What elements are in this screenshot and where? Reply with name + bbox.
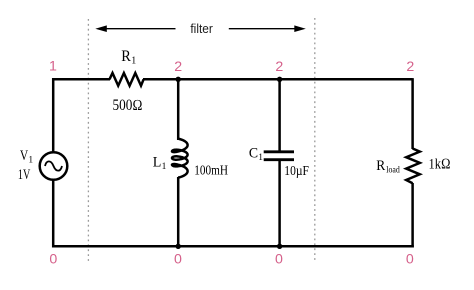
svg-text:R: R	[376, 158, 385, 174]
svg-text:1: 1	[28, 156, 33, 166]
svg-text:V: V	[20, 148, 29, 164]
svg-text:2: 2	[406, 59, 414, 75]
wire: L1 to node 0	[177, 177, 180, 247]
svg-text:500Ω: 500Ω	[113, 97, 143, 114]
svg-text:0: 0	[174, 251, 182, 267]
svg-text:1kΩ: 1kΩ	[429, 156, 451, 172]
wire: node 1 top horizontal (V1 to R1)	[52, 78, 110, 81]
svg-text:load: load	[386, 165, 400, 175]
svg-text:2: 2	[174, 59, 182, 75]
resistor Rload	[406, 149, 420, 184]
wire: node 1 vertical (top wire to V1 +)	[52, 78, 55, 152]
junction dot node 2 at C1	[277, 77, 282, 82]
svg-text:C: C	[249, 146, 258, 162]
filter boundary dashed line left	[87, 19, 89, 264]
svg-text:R: R	[121, 48, 131, 65]
svg-text:2: 2	[275, 59, 283, 75]
svg-text:100mH: 100mH	[194, 164, 228, 179]
junction dot node 2 at L1	[176, 77, 181, 82]
source V1 sine wave	[45, 161, 62, 170]
svg-text:0: 0	[49, 251, 57, 267]
svg-text:filter: filter	[190, 22, 212, 36]
capacitor C1 bottom plate	[264, 158, 294, 161]
svg-text:0: 0	[275, 251, 283, 267]
wire: node 0 bottom horizontal	[52, 245, 414, 248]
wire: node 2 down to L1	[177, 78, 180, 140]
source V1 circle	[40, 152, 68, 180]
junction dot node 0 at C1	[277, 244, 282, 249]
wire: Rload to node 0	[411, 183, 414, 248]
svg-text:L: L	[153, 155, 162, 171]
svg-text:1: 1	[258, 153, 263, 163]
svg-text:10µF: 10µF	[284, 164, 309, 179]
filter right arrow	[229, 25, 306, 32]
filter left arrow	[95, 25, 175, 32]
svg-text:1V: 1V	[18, 167, 31, 183]
wire: V1 - to node 0	[52, 180, 55, 248]
wire: node 2 down to C1	[278, 78, 281, 151]
wire: node 2 down to Rload	[411, 78, 414, 149]
filter boundary dashed line right	[314, 18, 316, 263]
inductor L1	[172, 139, 188, 178]
capacitor C1 top plate	[264, 150, 294, 153]
svg-text:0: 0	[406, 251, 414, 267]
svg-text:1: 1	[49, 58, 57, 74]
wire: node 2 top horizontal (R1 to Rload)	[143, 78, 413, 81]
junction dot node 0 at L1	[176, 244, 181, 249]
resistor R1	[110, 73, 144, 86]
svg-text:1: 1	[131, 55, 136, 66]
svg-text:1: 1	[162, 162, 167, 172]
wire: C1 to node 0	[278, 160, 281, 247]
